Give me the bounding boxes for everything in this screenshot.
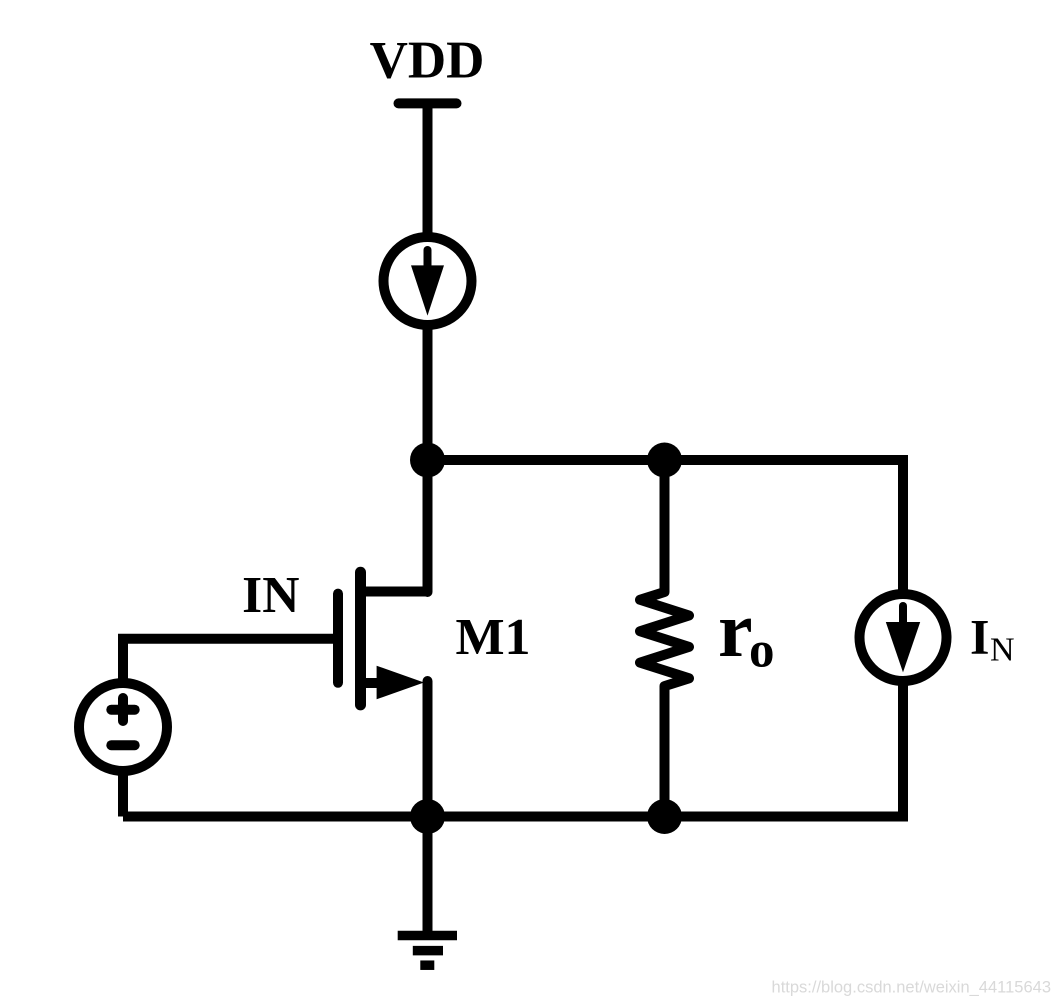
wire VDD to node A [423,103,433,460]
transistor M1 source lead [361,678,396,688]
voltage source leads and gate wire [123,639,338,817]
node B (top of ro) [647,443,682,478]
current source I1 circle [384,237,472,325]
top rail wire / right branch wire / bottom rail wire [123,460,903,817]
node A (drain node) [410,443,445,478]
svg-text:I: I [970,609,989,665]
node D (bottom of ro) [647,799,682,834]
current source IN circle [860,594,947,681]
transistor M1 source arrow [377,666,424,700]
node C (source/ground node) [410,799,445,834]
ground bar 1 [398,931,457,941]
voltage source plus sign [111,698,134,721]
svg-text:IN: IN [242,567,299,624]
current source I1 arrow [411,250,444,316]
ground bar 2 [413,946,443,956]
voltage source minus sign [111,740,134,750]
svg-text:N: N [990,632,1015,669]
transistor M1 drain lead [361,587,428,597]
transistor M1 gate bar [333,594,343,683]
voltage source V1 circle [79,683,167,771]
transistor M1 channel bar [355,572,366,705]
svg-text:o: o [749,623,775,679]
ground bar 3 [420,960,434,970]
current source IN arrow [886,606,920,672]
svg-text:M1: M1 [455,609,530,666]
svg-text:https://blog.csdn.net/weixin_4: https://blog.csdn.net/weixin_44115643 [772,979,1051,997]
svg-text:r: r [718,586,753,673]
wire node A to drain [423,460,433,592]
resistor ro (zigzag) [640,460,689,817]
svg-text:VDD: VDD [370,32,485,90]
wire source to node C [423,681,433,817]
VDD supply bar [399,98,457,108]
wire node C to ground [423,817,433,936]
